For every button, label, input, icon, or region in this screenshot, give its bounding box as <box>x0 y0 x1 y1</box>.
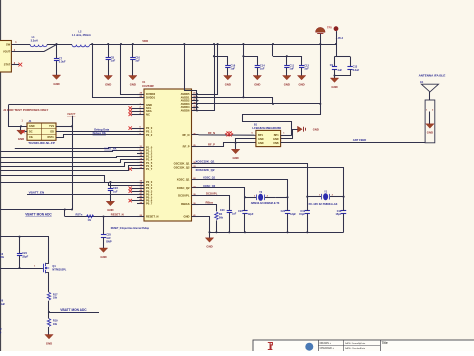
resistor R4 <box>215 212 224 220</box>
wire drain drop <box>48 237 50 264</box>
svg-text:P0_7: P0_7 <box>146 202 153 206</box>
ground below C12 <box>297 76 305 87</box>
resistor R10 series <box>87 215 94 222</box>
svg-text:XOSC_Q1: XOSC_Q1 <box>177 177 190 181</box>
wire R19 leads <box>48 312 50 334</box>
label RSTn <box>76 213 83 217</box>
junction C8 <box>107 43 109 45</box>
svg-text:ANT FEED: ANT FEED <box>353 138 366 142</box>
wire elbow C drop <box>272 44 274 56</box>
wire balun out1 <box>281 135 292 137</box>
wire C14 to ground <box>257 68 259 76</box>
svg-text:RBias: RBias <box>206 200 214 204</box>
capacitor C20 <box>220 209 237 215</box>
wire C11 C12 hang <box>273 56 302 65</box>
svg-text:Title: Title <box>382 341 388 345</box>
wire snake rail drop <box>320 44 322 104</box>
svg-text:DNP: DNP <box>106 239 112 243</box>
antenna E1 <box>419 74 446 143</box>
ground inside antenna <box>426 124 434 135</box>
label RF_P <box>208 143 215 147</box>
junction reset jog <box>64 208 66 210</box>
svg-text:3.3uH: 3.3uH <box>31 38 38 42</box>
svg-text:VBATT: VBATT <box>67 112 76 116</box>
wire Debug Clk <box>56 135 137 138</box>
svg-text:J1 FOR TEST PURPOSES ONLY: J1 FOR TEST PURPOSES ONLY <box>3 108 48 112</box>
svg-text:GND: GND <box>100 255 106 259</box>
svg-text:GND: GND <box>53 82 59 86</box>
junction snake rail <box>319 43 321 45</box>
logo mark <box>268 343 273 350</box>
capacitor C21 <box>238 210 254 216</box>
svg-text:TC2030-IDC-NL-FP: TC2030-IDC-NL-FP <box>28 141 55 145</box>
junction Y1 pin2 <box>343 196 345 198</box>
svg-text:RESET_N Input Has Internal Pul: RESET_N Input Has Internal Pullup <box>111 227 150 230</box>
svg-text:GND: GND <box>105 82 111 86</box>
svg-text:Debug Data: Debug Data <box>94 128 109 132</box>
svg-text:RSTn: RSTn <box>76 213 83 217</box>
label VBATT MON ADC lower <box>60 308 87 312</box>
junction C16 elbow <box>213 55 215 57</box>
capacitor C23 <box>108 186 119 193</box>
svg-text:GND: GND <box>206 245 212 249</box>
label VBATT_EN <box>29 190 45 194</box>
svg-text:10k: 10k <box>53 297 58 300</box>
svg-text:DVDD1: DVDD1 <box>146 95 156 99</box>
wire C24 lower stub <box>19 256 21 268</box>
svg-text:56k: 56k <box>219 216 224 219</box>
svg-text:DRAWN +: DRAWN + <box>320 342 332 345</box>
no-connect SCL <box>129 106 138 109</box>
resistor R17 <box>47 292 58 300</box>
wire P0_1 net <box>0 183 137 186</box>
wire P1_5 net <box>0 163 137 167</box>
sheet left border <box>0 0 2 351</box>
IC U1 right pins <box>174 92 199 219</box>
logo circle <box>305 343 313 351</box>
label XOSC32K_Q2 <box>196 168 215 172</box>
wire J1 TVS to VBATT <box>56 126 72 128</box>
svg-text:RF_P: RF_P <box>183 145 190 149</box>
junction C14 elbow <box>242 55 244 57</box>
label VBATT <box>67 112 76 116</box>
wire R4 to bus <box>216 220 218 232</box>
label UART net <box>104 146 117 150</box>
wire VBATT MON ADC run <box>0 209 72 211</box>
ground below C25 <box>99 248 107 259</box>
wire XOSC_Q1 net <box>199 180 288 198</box>
svg-text:ABM10-32.000MHZ-E-T3: ABM10-32.000MHZ-E-T3 <box>251 202 280 205</box>
junction gnd bus C21 <box>244 231 246 233</box>
svg-text:Debug Clk: Debug Clk <box>93 131 107 135</box>
junction C11 elbow <box>286 55 288 57</box>
svg-text:XOSC_Q2: XOSC_Q2 <box>177 186 190 190</box>
svg-text:RESET_N: RESET_N <box>111 213 124 217</box>
no-connect P0_2 <box>129 187 138 190</box>
svg-text:1uF: 1uF <box>260 67 265 71</box>
wire RF_N net <box>199 134 256 136</box>
wire Y2 left leg <box>244 197 246 232</box>
wire VBATT top run <box>0 236 49 238</box>
svg-text:P2_2: P2_2 <box>146 133 153 137</box>
svg-text:VBATT MON ADC: VBATT MON ADC <box>25 212 52 216</box>
wire C11 to ground <box>286 68 288 76</box>
svg-text:GND: GND <box>46 341 52 345</box>
svg-text:DCOUPL: DCOUPL <box>206 192 218 196</box>
transistor Q1 <box>43 263 67 273</box>
svg-text:C21: C21 <box>238 210 243 213</box>
svg-text:C22: C22 <box>281 210 286 213</box>
junction elbow C rail <box>272 43 274 45</box>
svg-text:1uF: 1uF <box>113 189 118 193</box>
svg-text:STAT: STAT <box>4 63 11 67</box>
capacitor C24 <box>17 251 29 258</box>
junction Y2 pin1 <box>244 196 246 198</box>
junction node C7 <box>55 43 57 45</box>
wire VBATT vertical <box>72 116 74 210</box>
wire P1_1 net <box>0 151 137 152</box>
junction Y1 pin1 <box>306 196 308 198</box>
wire VBATT_EN net <box>27 194 137 196</box>
wire Y1 right leg <box>343 197 345 233</box>
junction gnd bus R4 <box>215 231 217 233</box>
svg-text:DC: DC <box>29 131 33 134</box>
svg-text:1.1 ohm, 250mA: 1.1 ohm, 250mA <box>72 34 91 37</box>
ground below R19 <box>45 335 53 346</box>
junction AVDD1 rail <box>217 43 219 45</box>
svg-text:P2_1: P2_1 <box>146 130 153 134</box>
ground below C11 <box>283 76 291 87</box>
wire C13 bottom join <box>335 69 351 75</box>
wire C9 C13 header <box>335 44 351 57</box>
wire antenna gnd pin <box>429 112 431 124</box>
svg-text:VBATT MON ADC: VBATT MON ADC <box>60 308 87 312</box>
junction AVDD2 cross <box>242 96 244 98</box>
junction J1 gnd stem <box>20 125 22 127</box>
wire AVDD1 up <box>197 44 218 95</box>
wire XOSC32K_Q1 net <box>199 164 308 197</box>
wire XOSC32K_Q2 net <box>199 168 344 197</box>
svg-text:TVS: TVS <box>49 125 54 128</box>
inductor L1 <box>30 35 47 46</box>
svg-text:DATE: DrawnByDate: DATE: DrawnByDate <box>345 342 366 345</box>
svg-text:XOSC_Q1: XOSC_Q1 <box>203 175 216 179</box>
wire XOSC_Q2 net <box>199 188 245 198</box>
label XOSC_Q2 <box>203 184 216 188</box>
wire SW pin to L1 <box>11 41 30 45</box>
label VBATT MON ADC upper <box>25 212 52 216</box>
IC U1 left pins <box>137 92 158 219</box>
svg-text:GND: GND <box>29 125 35 128</box>
wire Debug Data <box>56 131 137 133</box>
wire analog gnd bus <box>210 232 344 234</box>
svg-text:GND: GND <box>107 208 113 212</box>
junction VBATT J1 <box>71 125 73 127</box>
no-connect STAT pin <box>11 62 22 67</box>
ground below C8 <box>104 76 112 87</box>
crystal Y1 <box>307 191 343 207</box>
svg-text:NC: NC <box>146 112 150 116</box>
wire C8 to ground <box>108 60 110 76</box>
wire L1 to L2 <box>47 44 72 46</box>
svg-text:12pF: 12pF <box>248 213 254 216</box>
svg-text:UART_RX: UART_RX <box>104 146 117 150</box>
junction VBATT MON node <box>48 311 50 313</box>
svg-text:GND: GND <box>232 156 238 160</box>
svg-text:RF_N: RF_N <box>182 133 189 137</box>
svg-text:GND: GND <box>184 215 190 219</box>
wire C23 stub <box>110 182 112 188</box>
label XOSC_Q1 <box>203 175 216 179</box>
junction C10 <box>132 43 134 45</box>
wire P1_6 net <box>0 166 137 171</box>
testpoint TP4 dome <box>316 27 326 33</box>
title fields <box>320 341 388 350</box>
wire C25 stub <box>103 217 105 235</box>
junction gnd bus C20 <box>228 231 230 233</box>
svg-text:GND: GND <box>130 82 136 86</box>
svg-text:10k: 10k <box>53 323 58 326</box>
svg-text:15pF: 15pF <box>299 213 305 216</box>
wire source to R17 <box>48 273 50 293</box>
wire AVDD3 long run <box>197 104 321 136</box>
svg-text:DD: DD <box>50 131 54 134</box>
junction snake mid <box>319 103 321 105</box>
svg-text:GND: GND <box>254 82 260 86</box>
label C26 clipped <box>0 300 6 306</box>
ground below gnd bus <box>205 238 213 249</box>
regulator U3 box <box>0 41 11 73</box>
svg-text:RSTn: RSTn <box>47 136 54 139</box>
capacitor C9 <box>330 64 343 72</box>
svg-text:XOSC32K_Q2: XOSC32K_Q2 <box>196 168 215 172</box>
wire C20 to bus <box>229 213 231 233</box>
capacitor C25 <box>101 233 112 244</box>
no-ERC marker RF_N <box>226 131 233 136</box>
svg-text:P1_7: P1_7 <box>146 167 153 171</box>
label RBias <box>206 200 214 204</box>
wire TP5 to rail <box>336 31 338 44</box>
ground below C7 <box>52 75 60 86</box>
svg-text:GND: GND <box>258 142 264 145</box>
label XOSC32K_Q1 <box>196 159 215 163</box>
wire AVDD bus vertical <box>196 93 198 112</box>
svg-text:VBATT_EN: VBATT_EN <box>29 190 45 194</box>
wire RF_P net <box>199 143 256 147</box>
wire C24 upper stub <box>19 237 21 254</box>
no-connect J1 DC pin <box>21 130 27 133</box>
svg-text:1uF: 1uF <box>304 67 309 71</box>
label J1 note <box>3 108 48 112</box>
svg-text:BP1: BP1 <box>274 134 279 137</box>
svg-text:FC-135 32.7680KA-A3: FC-135 32.7680KA-A3 <box>309 202 338 206</box>
svg-text:Clk: Clk <box>29 136 34 139</box>
label RESET_N <box>111 213 124 217</box>
wire J1 gnd stem <box>20 126 22 130</box>
junction C25 tap <box>102 215 104 217</box>
wire R17 to node <box>48 301 50 312</box>
junction gnd bus main <box>208 231 210 233</box>
wire balun gnd out <box>281 130 298 139</box>
title block frame <box>253 340 474 352</box>
junction AVDD6 rail <box>213 43 215 45</box>
wire DCOUPL net <box>199 196 230 211</box>
svg-text:GND: GND <box>225 82 231 86</box>
svg-text:.1uF: .1uF <box>337 69 343 72</box>
testpoint TP5 <box>327 25 344 40</box>
ground below C14 <box>253 76 261 87</box>
svg-text:AVDD6: AVDD6 <box>181 109 190 113</box>
junction DVDD1 rail <box>91 43 93 45</box>
wire reset jog <box>64 210 66 217</box>
svg-text:SW: SW <box>6 42 11 46</box>
svg-text:CC2540F: CC2540F <box>142 84 154 88</box>
junction C24 gate <box>18 267 20 269</box>
wire VBATT MON ADC lower <box>49 312 99 314</box>
svg-text:1uF: 1uF <box>232 212 237 215</box>
ground left of J1 <box>17 130 25 141</box>
wire C10 to ground <box>132 60 134 76</box>
balun B1 body <box>252 123 286 146</box>
no-connect SDA <box>129 110 138 113</box>
svg-text:CHECKED +: CHECKED + <box>320 347 335 350</box>
svg-text:RF_P: RF_P <box>208 143 215 147</box>
junction balun gnd <box>235 142 237 144</box>
svg-text:1uF: 1uF <box>230 67 235 71</box>
wire C7 stub <box>56 44 58 59</box>
svg-text:RBIAS: RBIAS <box>181 202 190 206</box>
wire balun gnd branch <box>236 139 256 150</box>
ground below balun input <box>231 149 239 160</box>
svg-text:P2_0: P2_0 <box>146 126 153 130</box>
wire P1_0 net <box>15 148 137 149</box>
wire C8 stub <box>108 44 110 58</box>
junction AVDD2 low <box>272 103 274 105</box>
svg-text:VOUT: VOUT <box>3 50 11 54</box>
svg-text:ANTENNA IFA BLE: ANTENNA IFA BLE <box>419 74 446 78</box>
crystal Y2 <box>245 191 288 205</box>
svg-text:RF_N: RF_N <box>208 131 215 135</box>
wire P0_0 net <box>0 176 137 183</box>
junction C24 top <box>18 236 20 238</box>
wire C9 to ground <box>334 69 336 78</box>
label RF_N <box>208 131 215 135</box>
wire gnd bus stub down <box>209 232 211 238</box>
svg-text:1uF: 1uF <box>289 67 294 71</box>
label Debug Data <box>94 128 109 132</box>
capacitor C7 <box>54 56 66 63</box>
svg-text:DATE: CheckedDate: DATE: CheckedDate <box>345 347 366 350</box>
no-connect P0_3 <box>129 190 138 193</box>
capacitor C11 <box>284 63 294 70</box>
svg-text:0.1uF: 0.1uF <box>0 303 6 306</box>
label ANT FEED <box>353 138 366 142</box>
capacitor C22 <box>281 210 297 216</box>
svg-text:BP1: BP1 <box>258 134 263 137</box>
title block dividers <box>318 340 381 351</box>
capacitor C18 <box>335 210 346 216</box>
wire GND pin run <box>9 104 138 106</box>
svg-text:C20: C20 <box>220 209 225 212</box>
svg-text:100k: 100k <box>0 256 5 259</box>
ground below C10 <box>129 76 137 87</box>
wire C23 to ground <box>110 191 112 202</box>
wire RESET_N net <box>65 216 137 218</box>
op IC U1 CC2540 body <box>142 81 191 221</box>
wire Y2 right leg <box>287 197 289 232</box>
label R21 clipped <box>0 328 2 334</box>
wire AVDD2 over <box>197 98 273 104</box>
wire C16 to ground <box>227 68 229 76</box>
junction gnd bus C19 <box>306 231 308 233</box>
wire Y1 left leg <box>307 197 309 233</box>
svg-text:VDD: VDD <box>142 39 148 43</box>
capacitor C19 <box>299 210 310 216</box>
svg-text:DCOUPL: DCOUPL <box>178 194 190 198</box>
svg-text:33pF: 33pF <box>22 254 28 258</box>
wire C10 stub <box>132 44 134 58</box>
svg-text:GND: GND <box>298 82 304 86</box>
svg-text:GND: GND <box>284 82 290 86</box>
wire ANT FEED <box>281 142 426 144</box>
wire C14 hang <box>243 57 257 66</box>
svg-text:GND: GND <box>313 127 319 131</box>
wire C7 to ground <box>56 61 58 75</box>
label TC2030 <box>28 141 55 145</box>
wire elbow branch B <box>243 44 245 97</box>
inductor L2 <box>72 30 91 47</box>
svg-text:OSC32K_Q1: OSC32K_Q1 <box>174 161 190 165</box>
junction DVDD2 rail <box>120 43 122 45</box>
label Debug Clk <box>93 131 107 135</box>
capacitor C10 <box>130 55 140 62</box>
svg-text:LFB182G45BG2D280: LFB182G45BG2D280 <box>252 126 281 130</box>
junction C9 gnd <box>333 74 335 76</box>
wire IC gnd pin drop <box>199 217 210 233</box>
connector J1 TC2030 body <box>22 120 57 140</box>
svg-text:1uF: 1uF <box>135 59 140 63</box>
no-connect NC <box>129 113 138 116</box>
capacitor C14 <box>255 63 266 70</box>
svg-text:GND: GND <box>273 138 279 141</box>
label DCOUPL <box>206 192 218 196</box>
capacitor C16 <box>225 63 236 70</box>
wire P1_4 net <box>0 160 137 163</box>
wire AVDD feed via jog <box>185 44 197 94</box>
svg-text:TP5: TP5 <box>327 25 332 29</box>
svg-text:1uF: 1uF <box>111 59 116 63</box>
wire C12 to ground <box>301 68 303 76</box>
ground below C16 <box>224 76 232 87</box>
label R16 clipped <box>0 253 5 259</box>
junction elbow B rail <box>242 43 244 45</box>
svg-text:3.3uF: 3.3uF <box>353 69 360 72</box>
ground below C9 <box>330 78 338 89</box>
capacitor C13 <box>347 66 359 72</box>
junction VBATT bottom <box>71 208 73 210</box>
junction AVDD jog rail <box>183 43 185 45</box>
wire C13 stub <box>350 57 352 67</box>
capacitor C12 <box>299 63 310 70</box>
svg-text:3.3uF: 3.3uF <box>59 60 66 64</box>
svg-text:UNB: UNB <box>273 142 279 145</box>
wire GND drop left <box>9 105 28 127</box>
wire VDD rail <box>90 44 336 46</box>
wire AVDD6 up <box>197 44 215 111</box>
svg-text:NTR0202PL: NTR0202PL <box>52 269 66 272</box>
power label VDD mid <box>142 39 148 43</box>
svg-text:15pF: 15pF <box>335 213 341 216</box>
